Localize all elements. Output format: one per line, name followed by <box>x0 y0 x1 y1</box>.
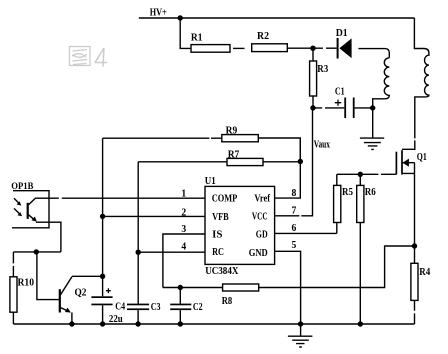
node RC <box>136 250 141 255</box>
node R2/R3/D1 <box>310 46 315 51</box>
optocoupler OP1B <box>11 182 49 228</box>
wire Q2 collector <box>72 275 103 277</box>
node rail GND pin <box>298 321 303 326</box>
resistor R7 <box>138 161 227 163</box>
svg-text:VCC: VCC <box>252 211 268 223</box>
svg-text:R9: R9 <box>226 126 238 137</box>
ground (main) <box>288 324 313 347</box>
wire pin5 GND <box>275 251 301 324</box>
svg-text:6: 6 <box>292 222 297 234</box>
node Q1 source / R4 <box>412 243 417 248</box>
wire pin3 IS <box>163 234 205 288</box>
svg-text:R4: R4 <box>419 267 431 278</box>
svg-text:VFB: VFB <box>212 211 229 223</box>
resistor R4 <box>414 246 416 263</box>
svg-text:IS: IS <box>212 229 222 241</box>
svg-text:4: 4 <box>181 241 186 253</box>
capacitor C1 <box>313 107 344 109</box>
wire pin6 GD <box>275 232 337 234</box>
resistor R3 <box>312 48 314 61</box>
svg-text:7: 7 <box>292 204 297 216</box>
svg-text:R3: R3 <box>317 64 328 75</box>
svg-text:COMP: COMP <box>212 192 238 204</box>
wire to Q2 base <box>37 252 59 300</box>
node Q2 collector / C4 <box>100 274 105 279</box>
svg-text:5: 5 <box>292 239 297 251</box>
svg-text:Vaux: Vaux <box>314 140 330 151</box>
svg-text:C1: C1 <box>335 87 345 98</box>
wire R9 left drop to VFB <box>102 138 104 276</box>
node R7/pin8 <box>298 159 303 164</box>
svg-text:U1: U1 <box>205 176 216 187</box>
wire pin7 VCC to Vaux <box>275 108 313 216</box>
node rail Q2 emitter <box>69 321 74 326</box>
svg-text:HV+: HV+ <box>150 8 167 19</box>
svg-text:R7: R7 <box>228 149 240 160</box>
svg-text:8: 8 <box>292 187 297 199</box>
wire node to D1 <box>313 47 337 49</box>
capacitor C3 <box>127 304 149 306</box>
svg-text:C4: C4 <box>115 302 125 313</box>
svg-text:RC: RC <box>212 246 224 258</box>
wire pin8 Vref <box>275 138 301 198</box>
wire emitter row <box>13 251 61 253</box>
resistor R1 <box>191 45 230 53</box>
node base junction <box>34 249 39 254</box>
node rail C2 <box>178 321 183 326</box>
wire R8 to Q1 source <box>259 246 415 288</box>
node C1 right / aux bottom <box>370 105 375 110</box>
transformer primary winding <box>402 18 429 149</box>
wire opto emitter <box>36 222 61 252</box>
svg-text:R8: R8 <box>222 296 233 307</box>
transformer aux winding <box>373 58 390 108</box>
transistor Q1 <box>396 150 426 246</box>
node Vaux (R3/C1/VCC) <box>310 105 315 110</box>
wire pin1 COMP to optocoupler <box>35 197 205 199</box>
svg-text:22u: 22u <box>109 314 123 325</box>
svg-text:D1: D1 <box>336 28 348 39</box>
svg-text:Q1: Q1 <box>417 152 427 163</box>
node gate/R6 <box>358 172 363 177</box>
svg-text:UC384X: UC384X <box>205 266 239 277</box>
svg-text:C2: C2 <box>193 302 203 313</box>
transistor Q2 <box>60 277 87 324</box>
wire pin4 RC <box>138 251 205 253</box>
svg-text:R10: R10 <box>18 278 35 289</box>
resistor R10 <box>12 252 14 277</box>
wire D1 to aux winding <box>358 49 389 58</box>
svg-text:R5: R5 <box>342 187 353 198</box>
node rail R6 <box>358 321 363 326</box>
ground (C1/aux) <box>360 108 384 149</box>
resistor R5 <box>336 174 338 185</box>
svg-text:Vref: Vref <box>254 192 270 204</box>
resistor R9 <box>103 137 223 139</box>
svg-text:C3: C3 <box>151 302 161 313</box>
node C2 top <box>178 285 183 290</box>
svg-text:Q2: Q2 <box>75 288 87 299</box>
resistor R2 <box>252 44 288 52</box>
node HV junction <box>178 15 183 20</box>
node VFB <box>100 214 105 219</box>
resistor R8 <box>163 287 223 289</box>
svg-text:R6: R6 <box>365 187 376 198</box>
wire HV+ top rail <box>139 17 415 19</box>
wire gate rail <box>337 173 397 175</box>
resistor R6 <box>359 174 361 185</box>
wire R7 left drop to RC <box>137 162 139 304</box>
wire pin2 VFB <box>103 215 205 217</box>
svg-text:GD: GD <box>256 229 268 241</box>
capacitor C2 <box>179 288 181 304</box>
wire R1-R2 dash <box>233 47 245 49</box>
svg-text:GND: GND <box>249 247 268 259</box>
IC U1 UC384X <box>205 186 275 264</box>
node rail C4 <box>100 321 105 326</box>
ground rail <box>13 323 414 325</box>
svg-text:R1: R1 <box>191 33 203 44</box>
node rail C3 <box>135 321 140 326</box>
diode D1 <box>336 28 352 59</box>
wire down to R1 <box>180 18 191 48</box>
capacitor C4 <box>102 276 104 296</box>
watermark 图4 <box>70 47 108 67</box>
svg-text:R2: R2 <box>257 31 269 42</box>
wire R2 to node <box>287 47 313 49</box>
